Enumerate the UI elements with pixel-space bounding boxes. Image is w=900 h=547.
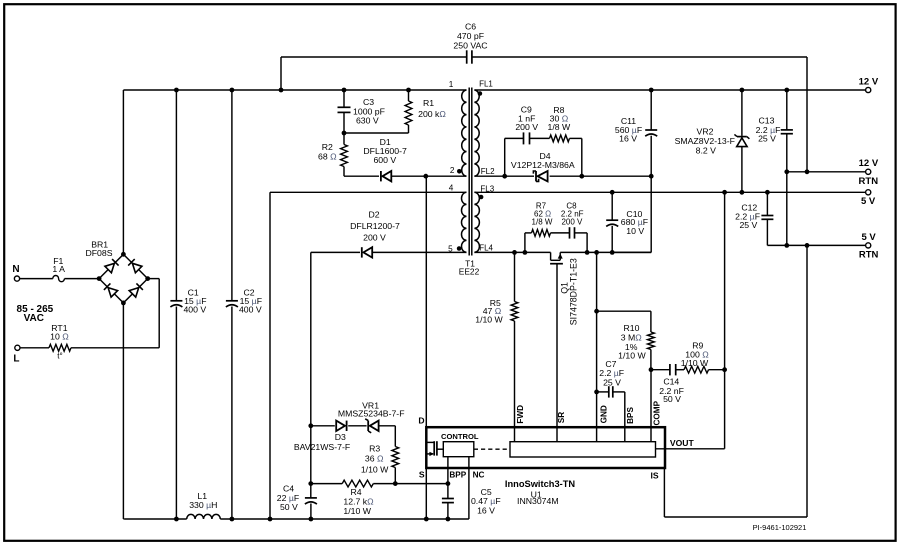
wire SR stub — [556, 427, 558, 442]
wire VOUT riser — [724, 192, 726, 449]
wire N to fuse — [20, 278, 53, 280]
label IS pin — [651, 470, 659, 480]
svg-text:16 V: 16 V — [477, 505, 495, 515]
wire D pin — [425, 176, 427, 427]
label COMP pin — [652, 400, 661, 425]
junction BR1 bottom — [121, 301, 126, 306]
junction snubber right — [579, 174, 584, 179]
junction bus C3 — [342, 88, 347, 93]
svg-text:DF08S: DF08S — [85, 248, 112, 258]
wire BR1 top to bus — [122, 90, 124, 254]
resistor R9 — [684, 366, 709, 373]
wire FWD stub — [514, 427, 516, 442]
thermistor RT1 — [49, 344, 71, 351]
svg-text:R1: R1 — [423, 98, 434, 108]
label C3 — [353, 97, 385, 126]
wire BPS stub — [624, 427, 626, 442]
svg-text:400 V: 400 V — [239, 305, 262, 315]
label C8 — [561, 202, 584, 227]
terminal 5V RTN — [866, 243, 871, 248]
svg-text:1: 1 — [449, 80, 454, 89]
svg-text:S: S — [419, 470, 425, 480]
svg-text:600 V: 600 V — [373, 155, 396, 165]
svg-text:25 V: 25 V — [758, 134, 776, 144]
terminal 12V — [866, 87, 871, 92]
wire pin4 drop — [269, 192, 271, 519]
junction C13 RTN12 — [784, 169, 789, 174]
wire NC drop — [468, 457, 470, 519]
label C12 — [735, 203, 760, 230]
label S pin — [419, 470, 425, 480]
svg-text:16 V: 16 V — [619, 134, 637, 144]
label pin 2 — [450, 166, 455, 175]
junction D pin — [423, 174, 428, 179]
svg-text:GND: GND — [599, 405, 608, 423]
junction BR1 top — [121, 252, 126, 257]
diode D3 — [336, 421, 346, 431]
junction BR1 left — [97, 276, 102, 281]
wire +DC bus — [123, 89, 466, 91]
label 5V — [861, 196, 876, 207]
label CONTROL — [441, 432, 479, 441]
wire D3 to VR1 — [348, 425, 366, 427]
svg-text:COMP: COMP — [652, 400, 661, 425]
svg-text:DFLR1200-7: DFLR1200-7 — [350, 221, 400, 231]
label U1 — [517, 489, 559, 506]
label VR1 — [338, 401, 405, 419]
dashed link CONTROL to block — [474, 448, 510, 450]
label VR2 — [675, 127, 735, 156]
junction rail S — [424, 517, 429, 522]
zener VR1 — [365, 419, 378, 433]
junction RTN5 drop — [805, 243, 810, 248]
svg-text:R3: R3 — [369, 443, 380, 453]
svg-text:1/8 W: 1/8 W — [548, 122, 571, 132]
svg-text:INN3074M: INN3074M — [517, 496, 559, 506]
label pin 5 — [448, 245, 453, 254]
capacitor C6 — [467, 50, 472, 63]
junction rail pin4 — [268, 517, 273, 522]
svg-text:L: L — [13, 353, 19, 364]
wire COMP stub — [650, 427, 652, 442]
wire D2 drop — [310, 252, 312, 425]
svg-text:EE22: EE22 — [459, 267, 480, 277]
junction RTN12 drop — [805, 169, 810, 174]
junction VR2 bottom — [740, 190, 745, 195]
junction COMP — [649, 367, 654, 372]
fuse F1 — [53, 276, 65, 282]
junction rail C1 — [174, 517, 179, 522]
label D1 — [363, 137, 407, 165]
capacitor C7 — [597, 386, 625, 427]
svg-text:SR: SR — [557, 412, 566, 423]
wire C6 left drop — [280, 57, 282, 90]
transformer T1 core — [469, 88, 472, 256]
label C10 — [621, 209, 648, 236]
svg-text:1/10 W: 1/10 W — [343, 506, 371, 516]
inductor L1 — [187, 514, 221, 519]
svg-text:5 V: 5 V — [861, 232, 876, 243]
IC U1 CONTROL box — [443, 442, 474, 457]
IC U1 box — [426, 427, 665, 468]
svg-text:200 V: 200 V — [515, 122, 538, 132]
svg-text:200 V: 200 V — [561, 217, 583, 226]
junction C13 top — [784, 88, 789, 93]
junction FL4 snub right — [585, 250, 590, 255]
wire COMP drop — [650, 370, 652, 428]
U1 internal MOSFET — [426, 441, 443, 456]
label pin 1 — [449, 80, 454, 89]
junction bus C6 — [279, 88, 284, 93]
svg-text:D: D — [418, 416, 424, 426]
svg-text:VAC: VAC — [24, 313, 44, 324]
polarity dot FL3 — [479, 195, 484, 200]
label D4 — [511, 151, 575, 170]
svg-text:50 V: 50 V — [663, 394, 681, 404]
svg-text:BAV21WS-7-F: BAV21WS-7-F — [294, 442, 350, 452]
junction C10 top — [610, 190, 615, 195]
svg-text:N: N — [12, 264, 19, 275]
wire R9 to riser — [709, 369, 725, 371]
wire IS riser — [806, 245, 808, 517]
snubber loop C9 R8 — [505, 132, 582, 176]
wire BR1 bottom to rail — [123, 303, 124, 519]
svg-text:FL2: FL2 — [481, 167, 495, 176]
junction rail C2 — [230, 517, 235, 522]
label 12V — [859, 76, 879, 87]
wire to D3 — [311, 425, 335, 427]
capacitor C11 — [645, 90, 657, 176]
svg-text:1/10 W: 1/10 W — [618, 350, 646, 360]
svg-text:50 V: 50 V — [280, 502, 298, 512]
svg-text:25 V: 25 V — [603, 378, 621, 388]
svg-text:t°: t° — [57, 351, 62, 360]
wire VOUT — [656, 448, 725, 450]
wire RT1 to corner — [71, 347, 159, 349]
svg-text:RTN: RTN — [859, 250, 879, 261]
svg-text:200 V: 200 V — [363, 233, 386, 243]
wire C14 to R9 — [676, 369, 684, 371]
capacitor C10 — [606, 192, 618, 252]
svg-text:VOUT: VOUT — [670, 438, 695, 448]
svg-text:BPP: BPP — [449, 471, 466, 480]
wire D1 to pin2 — [392, 175, 467, 177]
svg-text:V12P12-M3/86A: V12P12-M3/86A — [511, 160, 575, 170]
wire C6 line right — [472, 56, 807, 58]
diode D1 — [381, 171, 391, 181]
resistor R1 — [405, 90, 412, 133]
junction C4 top — [308, 481, 313, 486]
capacitor C13 — [781, 90, 793, 172]
junction BPP — [446, 481, 451, 486]
resistor R5 — [511, 252, 518, 427]
capacitor C14 — [670, 364, 676, 375]
junction VR2 top — [740, 88, 745, 93]
polarity dot pin2 — [457, 169, 462, 174]
svg-text:2: 2 — [450, 166, 455, 175]
label R7 — [532, 202, 553, 227]
terminal 12V RTN — [866, 169, 871, 174]
label C2 — [239, 288, 262, 315]
svg-text:IS: IS — [651, 470, 659, 480]
svg-text:250 VAC: 250 VAC — [453, 41, 487, 51]
label C4 — [277, 484, 299, 512]
wire R10 link — [597, 310, 651, 312]
junction rail C4 — [309, 517, 314, 522]
label BPS pin — [626, 407, 635, 424]
transistor Q1 — [550, 253, 563, 427]
label 12V RTN — [859, 158, 879, 187]
svg-text:4: 4 — [449, 184, 454, 193]
svg-text:RTN: RTN — [859, 176, 879, 187]
label D2 — [350, 209, 400, 242]
svg-text:InnoSwitch3-TN: InnoSwitch3-TN — [505, 479, 576, 489]
wire rail left — [124, 518, 186, 520]
transformer T1 primary winding 4-5 — [462, 192, 467, 252]
bridge rectifier BR1 — [99, 254, 148, 303]
capacitor C12 — [761, 192, 773, 245]
wire R4 to BPP — [373, 483, 448, 485]
label FWD pin — [516, 405, 525, 424]
label FL3 — [480, 185, 494, 194]
svg-text:BPS: BPS — [626, 407, 635, 424]
svg-text:CONTROL: CONTROL — [441, 432, 479, 441]
wire S pin — [425, 468, 427, 519]
wire fuse to BR1 — [64, 278, 99, 280]
label C9 — [515, 105, 538, 133]
junction rail C5 — [446, 517, 451, 522]
wire FL4 — [474, 252, 651, 260]
svg-text:FWD: FWD — [516, 405, 525, 424]
wire C4 to R4 — [311, 483, 342, 485]
resistor R10 — [648, 311, 655, 370]
junction C7 left — [594, 390, 599, 395]
wire right drop to 12V RTN — [806, 57, 808, 172]
wire up to BR1 right — [148, 279, 160, 348]
wire R2 to D1 — [344, 175, 379, 177]
label R2 — [318, 142, 337, 161]
wire IS drop — [663, 468, 665, 517]
svg-text:3 MΩ: 3 MΩ — [621, 333, 642, 343]
junction C11 top — [649, 88, 654, 93]
wire pin5 right — [373, 251, 467, 253]
junction C12 top — [765, 190, 770, 195]
label GND pin — [599, 405, 608, 423]
junction C3 bottom — [342, 131, 347, 136]
capacitor C4 — [305, 426, 317, 519]
label L1 — [189, 491, 217, 510]
svg-text:R10: R10 — [624, 323, 640, 333]
svg-text:C6: C6 — [465, 22, 476, 32]
resistor R4 — [342, 480, 373, 487]
label C7 — [599, 359, 624, 388]
snubber loop R7 C8 — [525, 227, 587, 252]
junction VOUT riser top — [722, 190, 727, 195]
wire VR1 to R3 — [379, 425, 395, 427]
junction R3 bottom — [393, 481, 398, 486]
label 85-265 VAC — [17, 304, 54, 324]
label C11 — [615, 116, 642, 143]
wire IS bottom — [664, 516, 807, 518]
resistor R3 — [392, 426, 399, 484]
label R10 — [618, 323, 646, 360]
svg-text:C3: C3 — [363, 97, 374, 107]
transformer T1 primary winding 1-2 — [462, 90, 467, 176]
svg-text:12 V: 12 V — [859, 76, 879, 87]
label pin 4 — [449, 184, 454, 193]
junction snubber left — [502, 174, 507, 179]
svg-text:1/8 W: 1/8 W — [532, 217, 553, 226]
terminal 5V — [866, 190, 871, 195]
capacitor C2 — [226, 90, 238, 519]
wire GND stub — [596, 427, 598, 442]
svg-text:68 Ω: 68 Ω — [318, 151, 337, 161]
svg-text:10 V: 10 V — [626, 226, 644, 236]
label Q1 — [559, 258, 578, 325]
wire FL1 to 12V — [474, 89, 865, 91]
junction FL4 GND drop — [594, 250, 599, 255]
label FL4 — [479, 244, 493, 253]
label SR pin — [557, 412, 566, 423]
svg-text:NC: NC — [473, 471, 485, 480]
svg-text:FL4: FL4 — [479, 244, 493, 253]
wire L to RT1 — [20, 347, 49, 349]
label D pin — [418, 416, 424, 426]
label VOUT pin — [670, 438, 695, 448]
junction D3 wire — [308, 423, 313, 428]
label C5 — [471, 487, 501, 515]
svg-text:330 µH: 330 µH — [189, 500, 217, 510]
junction FL4 snub left — [523, 250, 528, 255]
svg-text:12.7 kΩ: 12.7 kΩ — [343, 497, 374, 507]
label D3 — [294, 432, 350, 452]
label C13 — [756, 116, 781, 144]
svg-text:1/10 W: 1/10 W — [681, 358, 709, 368]
junction VOUT riser — [722, 367, 727, 372]
label BPP pin — [449, 471, 466, 480]
label C6 — [453, 22, 487, 51]
label R4 — [343, 487, 374, 516]
wire pin4 — [270, 191, 467, 193]
junction C13 RTN5 — [784, 243, 789, 248]
svg-text:1/10 W: 1/10 W — [361, 464, 389, 474]
svg-text:SI7478DP-T1-E3: SI7478DP-T1-E3 — [569, 258, 579, 325]
svg-text:400 V: 400 V — [183, 305, 206, 315]
svg-text:1/10 W: 1/10 W — [475, 314, 503, 324]
terminal L — [15, 345, 20, 350]
svg-text:2.2 µF: 2.2 µF — [599, 368, 624, 378]
svg-text:SMAZ8V2-13-F: SMAZ8V2-13-F — [675, 136, 735, 146]
svg-text:MMSZ5234B-7-F: MMSZ5234B-7-F — [338, 409, 405, 419]
wire BPP pin — [447, 457, 449, 484]
label PI number — [753, 523, 807, 532]
polarity dot pin5 — [457, 246, 462, 251]
label BR1 — [85, 240, 112, 258]
svg-text:25 V: 25 V — [739, 220, 757, 230]
wire rail right — [220, 518, 469, 520]
wire C14 link — [651, 369, 670, 371]
label C14 — [659, 376, 684, 404]
wire C6 line left — [281, 56, 467, 58]
wire RTN tie — [786, 172, 788, 246]
svg-text:C14: C14 — [663, 376, 679, 386]
transformer T1 secondary winding FL1-FL2 — [474, 90, 479, 176]
capacitor C3 — [338, 90, 351, 133]
junction FL4 C10 — [610, 250, 615, 255]
svg-text:10 Ω: 10 Ω — [50, 331, 69, 341]
capacitor C5 — [442, 484, 454, 519]
label T1 — [459, 259, 480, 277]
label R3 — [361, 443, 389, 474]
svg-text:630 V: 630 V — [356, 116, 379, 126]
zener VR2 — [734, 90, 749, 192]
junction bus C1 — [174, 88, 179, 93]
IC U1 inner block — [510, 442, 656, 457]
label R8 — [548, 105, 571, 132]
capacitor C1 — [170, 90, 182, 519]
label R9 — [681, 340, 709, 368]
wire D2 left — [311, 251, 360, 253]
wire FL2 to FL4 link — [612, 176, 651, 252]
junction FL2 C11 — [649, 174, 654, 179]
svg-text:D2: D2 — [368, 209, 379, 219]
svg-text:8.2 V: 8.2 V — [696, 145, 716, 155]
label FL2 — [481, 167, 495, 176]
transformer T1 secondary winding FL3-FL4 — [474, 192, 479, 252]
svg-text:200 kΩ: 200 kΩ — [418, 109, 446, 119]
svg-text:PI-9461-102921: PI-9461-102921 — [753, 523, 807, 532]
wire C3-R1 bottom — [344, 132, 409, 134]
label R1 — [418, 98, 446, 119]
label L — [13, 353, 19, 364]
junction FL4 R5 — [512, 250, 517, 255]
label F1 — [52, 256, 65, 274]
polarity dot FL1 — [478, 91, 483, 96]
wire FL2 — [474, 175, 651, 177]
svg-text:D3: D3 — [335, 432, 346, 442]
label 5V RTN — [859, 232, 879, 260]
svg-text:5 V: 5 V — [861, 196, 876, 207]
diode D2 — [362, 247, 372, 257]
svg-text:1 A: 1 A — [52, 264, 65, 274]
label R5 — [475, 298, 503, 324]
wire FL3 5V — [474, 191, 865, 193]
terminal N — [14, 276, 19, 281]
junction bus C2 — [230, 88, 235, 93]
junction BR1 right — [145, 276, 150, 281]
label FL1 — [479, 80, 493, 89]
wire 12V RTN — [787, 171, 866, 173]
label NC pin — [473, 471, 485, 480]
resistor R2 — [341, 133, 348, 176]
wire 5V RTN — [767, 244, 865, 246]
junction GND R10 link — [594, 309, 599, 314]
label InnoSwitch3-TN — [505, 479, 576, 489]
diode D4 — [533, 171, 547, 181]
junction bus R1 — [406, 88, 411, 93]
label N — [12, 264, 19, 275]
label C1 — [183, 288, 206, 315]
svg-text:36 Ω: 36 Ω — [365, 454, 384, 464]
svg-text:12 V: 12 V — [859, 158, 879, 169]
label RT1 — [50, 323, 69, 360]
svg-text:FL1: FL1 — [479, 80, 493, 89]
wire GND drop — [596, 252, 598, 427]
